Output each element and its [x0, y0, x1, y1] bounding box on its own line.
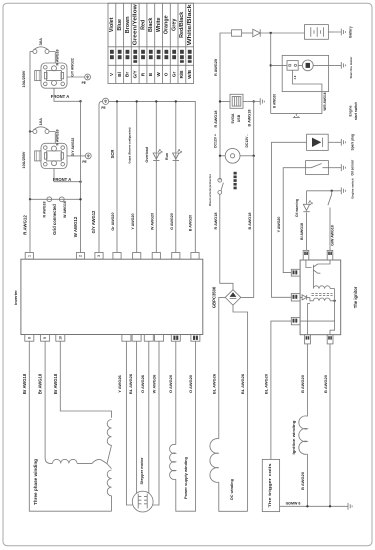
svg-text:White/Black: White/Black [187, 4, 193, 45]
svg-text:B AWG20: B AWG20 [189, 215, 193, 231]
ignitor box [300, 260, 341, 335]
ground (bus) [342, 503, 353, 510]
wire: pin4 SCR (Gr AWG20) [116, 101, 118, 252]
ground (battery) [335, 29, 346, 36]
svg-text:5V/3A: 5V/3A [231, 113, 235, 123]
svg-text:W AWG12: W AWG12 [73, 216, 78, 237]
ignitor pin: left T1 [291, 317, 300, 324]
svg-text:B AWG20: B AWG20 [300, 374, 305, 393]
svg-text:R AWG20: R AWG20 [214, 59, 218, 76]
svg-text:Output (Reserve configuration): Output (Reserve configuration) [127, 127, 131, 163]
svg-text:B AWG18: B AWG18 [248, 110, 252, 127]
svg-text:B AWG20: B AWG20 [273, 94, 277, 108]
ignitor internals: transformer primary [312, 272, 314, 288]
wire: PE collector rail [109, 101, 196, 252]
wire: Br AWG18 phase 2 [44, 341, 46, 457]
svg-text:FRONT A: FRONT A [51, 94, 69, 99]
stepper motor body [132, 491, 153, 512]
ignitor internals: rails to pins [300, 289, 335, 335]
terminal: grid connect A [47, 197, 52, 202]
ground bus [280, 505, 342, 507]
svg-text:30A: 30A [38, 38, 43, 45]
svg-text:10A/250V: 10A/250V [22, 70, 26, 87]
indicator LED: Run [173, 149, 182, 160]
wire: USB return to ground [243, 101, 247, 103]
svg-text:FRONT A: FRONT A [53, 177, 71, 182]
svg-text:Br AWG18: Br AWG18 [22, 373, 27, 394]
svg-text:Gr: Gr [171, 72, 176, 78]
wire: DC- drop (B AWG18) [253, 102, 255, 156]
svg-text:G/Y AWG22: G/Y AWG22 [71, 138, 75, 157]
svg-text:Engine: Engine [349, 105, 353, 116]
ignition winding coil [299, 416, 308, 454]
svg-text:start switch: start switch [354, 102, 358, 120]
ignitor pin: top A [303, 250, 309, 260]
svg-text:2: 2 [79, 255, 83, 257]
svg-text:G/W AWG18: G/W AWG18 [331, 225, 335, 246]
wire color legend table [108, 3, 194, 83]
wire: O AWG20 (power supply winding L) [175, 341, 177, 444]
wire: pin1 drop (R AWG12) [29, 199, 31, 252]
wire: feed into relay contact [271, 64, 287, 66]
svg-text:O AWG26: O AWG26 [140, 374, 145, 393]
svg-text:Oil warning: Oil warning [295, 199, 299, 217]
svg-text:SCR: SCR [110, 150, 115, 159]
svg-text:BL AWG26: BL AWG26 [211, 373, 216, 394]
wire: stepper O AWG26 [148, 341, 150, 493]
svg-text:Bl AWG18: Bl AWG18 [300, 223, 304, 240]
inverter input pins (top row) [25, 253, 33, 260]
svg-text:The ignitor: The ignitor [353, 286, 358, 308]
three phase winding coils [53, 459, 78, 463]
svg-text:O AWG20: O AWG20 [168, 374, 173, 393]
svg-text:Black: Black [148, 18, 154, 32]
earth terminal PE2 [85, 153, 91, 159]
svg-text:W AWG26: W AWG26 [151, 374, 156, 394]
ignitor internals: transformer secondary [313, 298, 330, 301]
resistor/fuse F1 [232, 30, 242, 36]
wire: battery to chassis ground [328, 31, 334, 33]
svg-text:Overcurrent protector: Overcurrent protector [208, 173, 212, 206]
wire: ignitor P to ignition winding (B AWG20) [306, 344, 308, 416]
svg-text:G/Y AWG12: G/Y AWG12 [91, 210, 96, 233]
inverter output pins (bottom row) [25, 335, 34, 342]
ignitor pin: bottom P [305, 335, 311, 344]
wire: ignitor to oil sensor (Y AWG20) [283, 168, 305, 273]
wire: USB feed junction [220, 101, 230, 103]
svg-text:Overload: Overload [145, 147, 149, 163]
svg-text:DC12V -: DC12V - [245, 134, 249, 147]
battery BT1 [305, 25, 329, 40]
svg-text:10A: 10A [38, 118, 43, 125]
svg-text:The trigger coils: The trigger coils [268, 464, 272, 508]
svg-text:Green/Yellow: Green/Yellow [133, 3, 139, 45]
earth terminal PE1 [85, 74, 91, 80]
wire: stepper Y AWG26 [126, 341, 132, 505]
wire: rectifier AC1 to DC winding [219, 297, 225, 438]
svg-text:Oil sensor: Oil sensor [350, 159, 354, 175]
start motor assembly box [282, 55, 328, 91]
ignitor pin: left EXT [291, 269, 300, 276]
ground (USB) [254, 98, 265, 105]
svg-text:Spark plug: Spark plug [350, 134, 354, 151]
svg-text:B AWG20: B AWG20 [323, 374, 328, 393]
svg-text:10: 10 [58, 336, 62, 340]
wire: bus to CB2 [30, 131, 33, 133]
wire: stepper BL AWG26 [136, 341, 138, 493]
svg-text:R AWG18: R AWG18 [214, 111, 218, 128]
svg-text:W AWG20: W AWG20 [151, 213, 155, 230]
ignitor pin: top B [327, 250, 333, 260]
circuit breaker CB1 30A [33, 47, 49, 54]
wire: diode to battery [260, 32, 304, 34]
svg-text:BL AWG20: BL AWG20 [264, 373, 269, 394]
wire: start switch loop [271, 92, 322, 114]
svg-text:3: 3 [97, 255, 101, 257]
svg-text:PE: PE [101, 106, 105, 110]
wire: CB1 to receptacle J1 (R AWG18) [49, 52, 55, 64]
wire: battery feed drop to starter [270, 33, 272, 113]
svg-text:R AWG18: R AWG18 [42, 201, 46, 217]
svg-text:Battery: Battery [348, 26, 352, 38]
svg-text:GDMW 8: GDMW 8 [286, 502, 301, 506]
wire: motor to ground [313, 64, 335, 66]
svg-text:B AWG18: B AWG18 [248, 213, 252, 230]
svg-text:Y AWG20: Y AWG20 [131, 213, 135, 229]
wire: ignitor HT to spark plug [272, 142, 307, 297]
svg-text:W/B AWG18: W/B AWG18 [323, 92, 327, 110]
svg-text:PE: PE [82, 160, 86, 164]
wire: DC- to rectifier [241, 156, 254, 298]
wire: switch to rectifier (R AWG18) [220, 194, 233, 289]
wire: pin6 overload lamp (W AWG20) [155, 101, 157, 252]
wire: trigger coil to T1 (BL AWG20) [271, 321, 291, 459]
svg-text:Ignition winding: Ignition winding [291, 420, 296, 455]
svg-text:DC winding: DC winding [230, 478, 234, 500]
wire + ground (spark plug) [328, 141, 335, 143]
wire: grid-connected jumper [30, 198, 81, 200]
spark plug [307, 134, 329, 150]
svg-text:9: 9 [43, 337, 47, 339]
wire: DC12V- lead [240, 155, 254, 157]
wire: J1 neutral down and right [54, 88, 81, 101]
wire: neutral bus [80, 101, 82, 252]
svg-text:B AWG20: B AWG20 [300, 471, 305, 490]
inverter main box [21, 259, 203, 334]
wire: bus to CB1 [30, 51, 33, 53]
svg-text:4-6: 4-6 [293, 75, 297, 79]
power supply winding coil [170, 444, 176, 479]
wire: Br AWG18 phase 1 [29, 341, 111, 511]
wire + ground (oil sensor) [328, 167, 334, 169]
svg-text:W AWG18: W AWG18 [63, 201, 67, 218]
svg-text:Inverter: Inverter [13, 290, 18, 305]
svg-text:PE: PE [82, 81, 86, 85]
svg-text:Grey: Grey [171, 19, 177, 31]
oil warning LED [306, 191, 308, 205]
svg-text:G/Y AWG22: G/Y AWG22 [70, 58, 74, 77]
engine switch lever [328, 191, 332, 251]
svg-text:10A/250V: 10A/250V [22, 151, 26, 168]
wire: stepper W AWG26 [153, 341, 159, 505]
oil sensor [306, 161, 329, 175]
wire: J1 earth to PE1 (G/Y AWG22) [67, 76, 85, 78]
svg-text:Brown: Brown [125, 16, 131, 33]
svg-text:White: White [156, 17, 162, 32]
svg-text:BL AWG26: BL AWG26 [240, 373, 245, 394]
earth terminal PE3 [103, 98, 109, 104]
relay coil wiring [292, 70, 322, 91]
svg-text:Br: Br [125, 72, 130, 77]
svg-text:Blue: Blue [117, 19, 123, 31]
wire: DC12V+ lead [220, 155, 225, 157]
wire [242, 32, 253, 34]
wire: engine switch rail to ground [307, 190, 335, 192]
wire: pin7 run lamp (G AWG20) [175, 101, 177, 252]
svg-text:G AWG20: G AWG20 [170, 213, 174, 230]
svg-text:BL AWG26: BL AWG26 [128, 373, 133, 394]
wire: Br AWG18 phase 3 [60, 341, 111, 418]
wire: hot bus (left) [29, 52, 31, 200]
wire: rectifier AC2 to DC winding [233, 305, 248, 511]
svg-text:R AWG18: R AWG18 [214, 213, 218, 230]
svg-text:Orange: Orange [164, 15, 170, 34]
svg-text:Bl: Bl [117, 72, 122, 77]
wire: J2 neutral down and right [54, 169, 81, 182]
ground (start motor) [335, 62, 346, 69]
trigger coils box [262, 459, 279, 511]
label: socket (chinese) [234, 172, 237, 175]
svg-text:Red/Black: Red/Black [179, 12, 185, 38]
svg-text:O: O [164, 72, 169, 76]
svg-text:Red: Red [140, 20, 146, 30]
wire: J2 earth to PE2 (G/Y AWG22) [67, 155, 85, 157]
ignitor internals: clamp diode [300, 295, 307, 300]
wire: pin3 PE drop (G/Y AWG12) [99, 101, 103, 252]
receptacle J1 10A/250V [35, 63, 67, 88]
svg-text:USB: USB [237, 114, 241, 122]
svg-text:G/Y: G/Y [133, 70, 138, 78]
svg-text:DC12V +: DC12V + [213, 134, 217, 148]
svg-text:R AWG12: R AWG12 [22, 215, 27, 235]
svg-text:8: 8 [27, 337, 31, 339]
wire: R AWG20 riser to battery rail [220, 33, 232, 180]
svg-text:W: W [156, 72, 161, 77]
motor M [298, 64, 302, 66]
svg-text:Grid connected: Grid connected [52, 204, 57, 235]
ignitor pin: left IN [291, 294, 300, 301]
svg-text:Three phase winding: Three phase winding [33, 459, 38, 505]
svg-text:Start the motor: Start the motor [349, 56, 353, 79]
cigarette lighter socket DC12V [225, 148, 240, 163]
wire: CB2 to receptacle J2 (R AWG18) [49, 132, 55, 144]
receptacle J2 10A/250V [35, 143, 67, 168]
svg-text:Y AWG20: Y AWG20 [277, 217, 281, 233]
svg-text:Y AWG26: Y AWG26 [117, 374, 122, 392]
relay contact block [287, 61, 298, 71]
terminal: grid connect B [59, 197, 64, 202]
svg-text:Run: Run [165, 153, 169, 160]
USB port [230, 94, 243, 108]
ignitor pin: bottom GND [327, 335, 333, 344]
overcurrent protector switch [218, 178, 222, 182]
ignitor internals: core [312, 294, 333, 296]
circuit breaker CB2 10A [33, 127, 49, 134]
diode D1 [253, 29, 260, 36]
svg-text:O AWG20: O AWG20 [188, 374, 193, 393]
push button: engine start switch [293, 113, 300, 117]
svg-text:Br AWG18: Br AWG18 [53, 373, 58, 394]
svg-text:Engine switch: Engine switch [350, 178, 354, 198]
svg-text:Gr AWG20: Gr AWG20 [111, 212, 115, 230]
wire: ignitor GND drop (B AWG20) [329, 344, 331, 506]
ignitor internals: power transistor [306, 260, 330, 273]
svg-text:Violet: Violet [109, 17, 115, 32]
svg-text:Br AWG18: Br AWG18 [38, 373, 43, 394]
bridge rectifier GBPC3506 [225, 290, 241, 306]
wire: pin5 output config (Y AWG20) [136, 101, 138, 252]
svg-text:Stepper motor: Stepper motor [139, 457, 144, 484]
svg-text:1: 1 [27, 255, 31, 257]
DC winding coil (BL AWG26) [210, 439, 219, 483]
svg-text:R/B: R/B [179, 70, 184, 79]
indicator LED: Overload [153, 149, 162, 160]
svg-text:W/B: W/B [187, 69, 192, 79]
svg-text:Power supply winding: Power supply winding [183, 456, 188, 499]
svg-text:GBPC3506: GBPC3506 [212, 286, 217, 308]
